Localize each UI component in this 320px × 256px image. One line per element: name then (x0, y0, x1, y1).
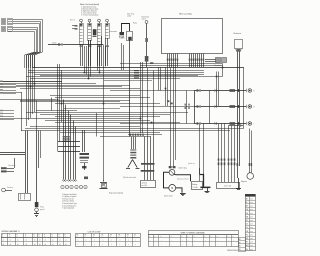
front brake switch SW6 (142, 16, 150, 67)
connector CN3 (in-line bus connectors) (134, 62, 153, 78)
fan motor FM1 (thick loop with ground) (110, 23, 138, 137)
starter relay SR1 (circle) (169, 169, 175, 175)
ground frame (left) (34, 207, 45, 217)
svg-text:Meter assembly: Meter assembly (179, 12, 192, 15)
table: sub colour block (small, left of legend) (238, 238, 246, 252)
svg-text:ground: ground (40, 209, 45, 211)
wire magneto leads (6-wire bundle) (63, 100, 77, 182)
svg-text:H: H (253, 106, 254, 108)
dimmer switch SW2 (88, 19, 92, 40)
fuse box F1 (141, 137, 156, 188)
connector pair (ignition feed, mid) (167, 100, 173, 104)
connector bank under meter (right group) (189, 54, 204, 68)
svg-text:WIRING DIAGRAM T1: WIRING DIAGRAM T1 (2, 230, 20, 233)
sidestand switch SW7 (circle, left) (2, 186, 13, 192)
battery ground post (thick) (200, 175, 211, 193)
svg-text:Engine ground lead: Engine ground lead (177, 178, 189, 180)
connector dashes on magneto bundle (63, 136, 70, 142)
svg-text:99099-1234 A: 99099-1234 A (227, 249, 238, 252)
svg-text:M: M (171, 188, 173, 190)
turn signal lamp row 1 (front right) (194, 89, 254, 93)
connector CN5 (frame loom, left edge upper) (0, 81, 16, 94)
svg-text:sw: sw (34, 236, 36, 238)
connector CN1 (headlight 6-pin, top left) (2, 19, 13, 25)
svg-text:wire: wire (250, 198, 253, 200)
svg-text:wire: wire (250, 249, 253, 251)
svg-text:sw: sw (52, 236, 54, 238)
wire headlight harness to main loom (turns down) (13, 20, 43, 69)
wire switch leads down to loom (81, 36, 108, 66)
svg-text:WIRE TO WIRING DIAGRAM: WIRE TO WIRING DIAGRAM (181, 231, 205, 234)
battery BT1 (192, 168, 203, 190)
legend: lead list bottom-left (62, 193, 77, 210)
connector stubs left of SW1 (70, 19, 78, 29)
connector row under switches (80, 45, 109, 46)
magneto MG1 (flywheel) (241, 163, 254, 183)
wire tail harness pair (left) (0, 131, 39, 194)
connector CN10 (lamp feed cluster) (185, 104, 191, 109)
svg-text:wire: wire (250, 227, 253, 229)
terminal numbers (circled) under bundle (61, 185, 87, 189)
oil level detector OD1 (233, 32, 243, 178)
starter motor SM1 (164, 185, 176, 198)
tail lamp row 3 (194, 122, 254, 126)
clutch switch SW5 with lead (48, 41, 103, 45)
wire main loom vertical runs (22, 40, 252, 182)
turn signal switch SW3 (98, 19, 102, 44)
horn HN1 (dark blob) (93, 29, 97, 36)
connector CN8 (main ground lead) (35, 131, 39, 212)
svg-text:T: T (253, 123, 254, 125)
svg-text:Frame: Frame (40, 207, 44, 209)
connector CN2 (position lamp, below CN1) (2, 27, 13, 32)
ground tail (right of magneto) (236, 178, 241, 190)
wire CDI feed cap (under lamp row 3) (229, 124, 244, 126)
connector CN7 (rear brake switch leads) (1, 158, 16, 172)
svg-text:Meter Unit lead (detail): Meter Unit lead (detail) (80, 3, 99, 6)
junction dots on loom (30, 67, 224, 124)
spark plug SP1 (100, 180, 124, 195)
svg-text:sw: sw (44, 236, 46, 238)
svg-text:sw: sw (59, 236, 61, 238)
headlamp row 2 (194, 105, 254, 109)
svg-text:BK: BK (239, 249, 241, 251)
wire main loom horizontal runs (lower band) (0, 111, 244, 137)
connector bank under meter (left group) (167, 54, 178, 68)
svg-text:Horn sw: Horn sw (70, 19, 75, 21)
engine stop switch SW4 (106, 19, 110, 38)
wire main loom horizontal runs (middle band) (0, 81, 194, 109)
svg-text:wire: wire (250, 209, 253, 211)
svg-text:sw: sw (2, 236, 4, 238)
connector CN6 (left edge lower) (0, 110, 14, 120)
connector CN4 (oil switch 2-pin) (205, 58, 227, 68)
table: model application (bottom right) (148, 231, 239, 253)
svg-text:sw: sw (25, 236, 27, 238)
svg-text:wire: wire (250, 234, 253, 236)
rectifier RE1 (small box lower left) (19, 194, 31, 201)
svg-text:BK: BK (239, 246, 241, 248)
svg-text:wire: wire (250, 216, 253, 218)
svg-text:BK: BK (239, 239, 241, 241)
svg-text:4. Pickup coil blue: 4. Pickup coil blue (62, 201, 74, 203)
svg-text:Rear brake: Rear brake (9, 165, 16, 167)
table: wire colour legend (right edge) (245, 194, 256, 251)
connector band (CDI leads) (130, 134, 144, 136)
wire main loom horizontal runs (upper band) (26, 64, 244, 79)
CDI unit U1 (217, 159, 240, 189)
ignition switch main (connector pair) (169, 166, 187, 169)
svg-text:sw: sw (39, 236, 41, 238)
svg-text:5. Oil level warning lamp: 5. Oil level warning lamp (81, 14, 98, 16)
svg-text:COLOR CODE: COLOR CODE (88, 231, 101, 233)
meter assembly M1 (large box) (162, 12, 223, 53)
svg-text:sender: sender (127, 16, 132, 18)
svg-text:wire: wire (250, 245, 253, 247)
wire lamp bracket (joins rows) (194, 91, 196, 124)
svg-text:sw: sw (9, 236, 11, 238)
ignition coil IC1 (58, 130, 89, 179)
connector CN9 (vertical strip) (130, 137, 136, 159)
table: front harness wiring (bottom left) (1, 230, 71, 246)
ground engine (below starter) (180, 194, 186, 196)
svg-text:BK: BK (239, 242, 241, 244)
stand bracket (Y legs) (123, 160, 140, 179)
label water temp sender (127, 13, 134, 18)
table: color code (bottom middle) (75, 231, 141, 246)
svg-text:Relay: Relay (133, 23, 137, 25)
svg-text:sw: sw (65, 236, 67, 238)
legend: meter unit key (numbered list) (80, 3, 99, 17)
svg-text:R: R (253, 90, 254, 92)
svg-text:sw: sw (17, 236, 19, 238)
svg-text:YE: YE (246, 249, 248, 251)
wire battery cable (thick loop) (164, 172, 191, 193)
ignition switch SW1 (80, 19, 84, 44)
